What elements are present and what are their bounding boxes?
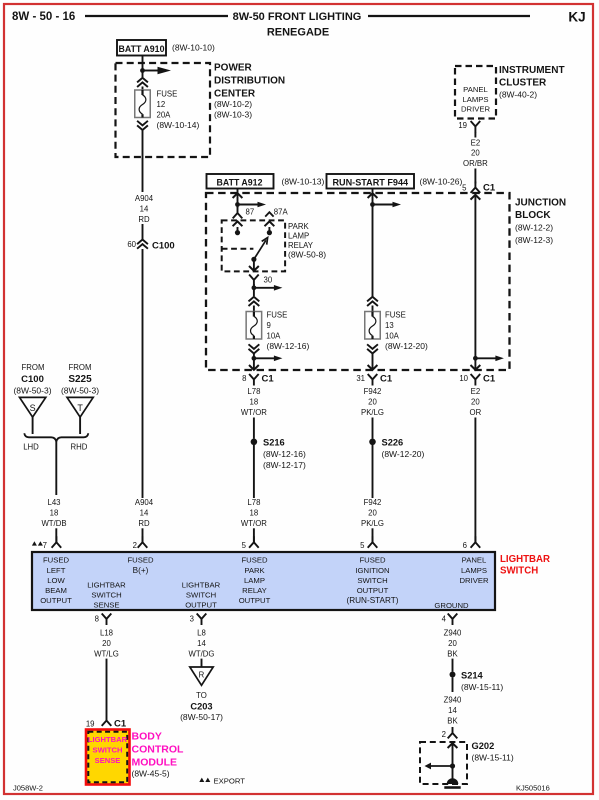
svg-text:FUSED: FUSED <box>359 556 386 565</box>
svg-text:CLUSTER: CLUSTER <box>499 77 547 88</box>
wire E2 through junction block <box>474 196 476 369</box>
header rule right <box>368 15 530 17</box>
svg-text:LAMPS: LAMPS <box>461 566 487 575</box>
label FUSED LEFT LOW BEAM OUTPUT <box>40 556 72 605</box>
wire label L18 20 WT/LG <box>94 629 119 659</box>
svg-text:E2: E2 <box>471 387 481 396</box>
svg-text:(8W-40-2): (8W-40-2) <box>499 90 537 100</box>
svg-text:2: 2 <box>442 730 446 739</box>
label LIGHTBAR SWITCH OUTPUT <box>182 581 221 610</box>
connector chevron below fuse 12 <box>137 121 148 130</box>
svg-text:20: 20 <box>471 149 480 158</box>
svg-text:L8: L8 <box>197 629 206 638</box>
relay pin 30 wire <box>253 259 255 271</box>
svg-text:DISTRIBUTION: DISTRIBUTION <box>214 76 285 87</box>
svg-text:(8W-50-3): (8W-50-3) <box>13 386 51 396</box>
svg-text:18: 18 <box>250 397 259 406</box>
svg-text:S225: S225 <box>68 374 92 385</box>
svg-text:PANEL: PANEL <box>463 85 488 94</box>
connector chevron above fuse 9 <box>249 297 260 306</box>
svg-text:10: 10 <box>459 374 468 383</box>
connector chevron below fuse 13 <box>367 344 378 353</box>
wire L18 to BCM <box>106 659 108 715</box>
Power Distribution Center dashed box <box>116 63 211 157</box>
node junction F944 feed <box>370 202 375 207</box>
label PANEL LAMPS DRIVER in switch <box>459 556 488 585</box>
svg-text:DRIVER: DRIVER <box>459 576 488 585</box>
node junction below fuse 9 <box>252 356 257 361</box>
svg-text:BK: BK <box>447 649 458 658</box>
svg-text:RELAY: RELAY <box>242 586 267 595</box>
svg-text:19: 19 <box>86 720 95 729</box>
svg-text:FUSE: FUSE <box>267 311 288 320</box>
svg-text:WT/OR: WT/OR <box>241 408 267 417</box>
svg-text:6: 6 <box>463 541 467 550</box>
node junction E2 <box>473 356 478 361</box>
wire to fuse 12 <box>142 87 144 91</box>
svg-text:87: 87 <box>246 208 255 217</box>
wire to fuse 9 <box>253 306 255 313</box>
entry arrow from BATT A912 <box>233 193 243 198</box>
wire S216 to pin 5 <box>253 445 255 498</box>
svg-text:FUSE: FUSE <box>385 311 406 320</box>
svg-text:L18: L18 <box>100 629 113 638</box>
wire E2 to pin 6 <box>474 418 476 543</box>
pin 5 lightbar switch ignition <box>360 536 377 550</box>
connector C1 pin 5 junction block <box>462 182 496 194</box>
entry arrow into G202 <box>448 743 458 748</box>
svg-text:L43: L43 <box>47 498 60 507</box>
svg-text:LEFT: LEFT <box>47 566 66 575</box>
connector C1 pin 10 <box>459 374 496 386</box>
power feed box BATT A912 <box>207 174 274 189</box>
wire label F942 20 PK/LG lower <box>361 498 384 528</box>
svg-text:FROM: FROM <box>69 363 92 372</box>
svg-text:(8W-10-13): (8W-10-13) <box>282 177 325 187</box>
ground feed arrow left <box>425 763 453 770</box>
svg-text:60: 60 <box>127 240 136 249</box>
svg-text:5: 5 <box>462 184 467 193</box>
svg-text:(8W-12-20): (8W-12-20) <box>382 449 425 459</box>
svg-text:MODULE: MODULE <box>132 757 178 769</box>
svg-text:RENEGADE: RENEGADE <box>267 26 329 38</box>
wire fuse 13 to pin 31 <box>372 354 374 370</box>
svg-text:KJ505016: KJ505016 <box>516 784 550 793</box>
pin arrow into junction block top <box>471 195 481 200</box>
svg-text:OUTPUT: OUTPUT <box>239 596 271 605</box>
svg-text:S: S <box>30 403 36 413</box>
svg-text:3: 3 <box>190 615 194 624</box>
pin 4 lightbar switch <box>442 614 458 626</box>
wire label F942 20 PK/LG upper <box>361 387 384 417</box>
svg-text:WT/DB: WT/DB <box>41 519 66 528</box>
wire label A904 14 RD upper <box>135 194 154 224</box>
label TO C203 (8W-50-17) <box>180 691 223 722</box>
wire to connector C1 pin 5 <box>474 169 476 184</box>
svg-text:12: 12 <box>157 100 166 109</box>
arrow run-start feed to other circuits <box>373 202 402 208</box>
wire C100 to lightbar switch pin 2 <box>142 249 144 498</box>
wire S214 to G202 <box>452 678 454 693</box>
wire pin 19 to E2 label <box>474 132 476 138</box>
wire into pin 7 <box>55 528 57 542</box>
connector C1 pin 19 <box>86 715 127 730</box>
pin 5 lightbar switch park lamp <box>242 536 259 550</box>
wire into pin 2 <box>142 528 144 542</box>
export marker pin 7 <box>32 541 43 545</box>
label FUSE 12 20A (8W-10-14) <box>157 90 200 131</box>
Body Control Module box <box>86 730 130 785</box>
label PARK LAMP RELAY (8W-50-8) <box>288 222 326 259</box>
svg-text:2: 2 <box>133 541 137 550</box>
svg-text:SWITCH: SWITCH <box>186 591 216 600</box>
svg-text:PARK: PARK <box>244 566 265 575</box>
svg-text:C1: C1 <box>380 374 393 385</box>
wire from S triangle <box>32 417 34 434</box>
svg-text:WT/OR: WT/OR <box>241 519 267 528</box>
svg-text:J058W-2: J058W-2 <box>13 784 43 793</box>
svg-text:L78: L78 <box>247 498 260 507</box>
svg-text:4: 4 <box>442 615 447 624</box>
svg-text:C203: C203 <box>190 702 212 712</box>
wire merged to pin 7 <box>55 442 57 495</box>
node junction pin 30 <box>252 284 257 296</box>
svg-text:8: 8 <box>242 374 246 383</box>
svg-text:20: 20 <box>448 639 457 648</box>
svg-text:LOW: LOW <box>47 576 65 585</box>
relay pin 87 entry <box>233 221 243 235</box>
Instrument Cluster dashed box <box>455 66 496 119</box>
svg-text:FUSED: FUSED <box>127 556 154 565</box>
wire label Z940 20 BK <box>444 629 462 659</box>
svg-text:30: 30 <box>264 276 273 285</box>
svg-text:20: 20 <box>368 508 377 517</box>
svg-text:(8W-15-11): (8W-15-11) <box>461 682 503 692</box>
LHD RHD merge bracket <box>24 433 88 442</box>
wire label E2 20 OR/BR <box>463 138 488 168</box>
svg-text:JUNCTION: JUNCTION <box>515 198 566 209</box>
wire label A904 14 RD lower <box>135 498 154 528</box>
svg-text:RHD: RHD <box>71 443 88 452</box>
svg-text:Z940: Z940 <box>444 696 462 705</box>
svg-text:S226: S226 <box>382 437 404 447</box>
fuse F13 10A <box>365 312 381 340</box>
svg-text:BEAM: BEAM <box>45 586 67 595</box>
svg-text:20: 20 <box>102 639 111 648</box>
triangle symbol S <box>20 397 46 417</box>
connector C1 pin 8 <box>242 374 274 386</box>
svg-text:(8W-12-16): (8W-12-16) <box>267 341 310 351</box>
svg-text:LHD: LHD <box>23 443 39 452</box>
svg-text:F942: F942 <box>364 387 382 396</box>
svg-text:SWITCH: SWITCH <box>91 591 121 600</box>
header rule left <box>85 15 228 17</box>
svg-text:(8W-10-10): (8W-10-10) <box>172 43 215 53</box>
svg-text:8W-50 FRONT LIGHTING: 8W-50 FRONT LIGHTING <box>233 11 362 23</box>
svg-text:(8W-10-2): (8W-10-2) <box>214 99 252 109</box>
chevron 87A above relay <box>265 212 273 216</box>
svg-text:CENTER: CENTER <box>214 89 256 100</box>
pin 6 lightbar switch <box>463 536 481 550</box>
svg-text:SWITCH: SWITCH <box>357 576 387 585</box>
svg-text:19: 19 <box>458 121 467 130</box>
exit arrow junction block pin 31 <box>368 365 378 370</box>
svg-text:14: 14 <box>448 706 457 715</box>
wire Z940 to splice S214 <box>452 659 454 672</box>
wire S226 to pin 5 <box>372 445 374 498</box>
svg-text:INSTRUMENT: INSTRUMENT <box>499 65 565 76</box>
arrow feed to other circuits <box>143 67 172 75</box>
relay pin 87A entry <box>265 221 275 235</box>
wire A912 into junction block <box>237 189 239 209</box>
wire F942 to splice S226 <box>372 418 374 439</box>
triangle symbol T <box>67 397 93 417</box>
connector chevron above fuse 12 <box>137 78 148 87</box>
connector C100 pin 60 <box>127 240 174 252</box>
svg-text:L78: L78 <box>247 387 260 396</box>
svg-text:9: 9 <box>267 321 271 330</box>
svg-text:OUTPUT: OUTPUT <box>185 600 217 609</box>
wire from T triangle <box>79 417 81 434</box>
fuse F9 10A <box>246 312 262 340</box>
svg-text:FROM: FROM <box>22 363 45 372</box>
pin 2 ground connector <box>442 727 458 739</box>
node junction on A910 feed <box>140 68 145 73</box>
wire F944 into junction block <box>372 189 374 297</box>
svg-text:RD: RD <box>138 215 150 224</box>
label G202 (8W-15-11) <box>472 741 514 763</box>
svg-text:C100: C100 <box>21 374 44 385</box>
svg-text:5: 5 <box>360 541 365 550</box>
svg-text:SENSE: SENSE <box>95 756 121 765</box>
pin 2 lightbar switch <box>133 536 148 550</box>
svg-text:(8W-12-3): (8W-12-3) <box>515 235 553 245</box>
svg-text:FUSED: FUSED <box>241 556 268 565</box>
svg-text:(RUN-START): (RUN-START) <box>347 596 399 605</box>
wire fuse 9 to pin 8 <box>253 354 255 370</box>
arrow panel lamps feed right <box>475 356 504 362</box>
svg-text:(8W-10-14): (8W-10-14) <box>157 120 200 130</box>
svg-text:POWER: POWER <box>214 63 253 74</box>
svg-text:SENSE: SENSE <box>93 600 119 609</box>
svg-text:13: 13 <box>385 321 394 330</box>
arrow park lamp feed to other circuits <box>254 285 283 291</box>
svg-text:BK: BK <box>447 716 458 725</box>
fuse F12 20A <box>135 90 151 118</box>
svg-text:14: 14 <box>140 508 149 517</box>
svg-text:(8W-10-26): (8W-10-26) <box>420 177 463 187</box>
svg-text:C1: C1 <box>262 374 275 385</box>
power feed box BATT A910 <box>117 40 166 56</box>
svg-text:(8W-50-17): (8W-50-17) <box>180 712 223 722</box>
svg-text:TO: TO <box>196 691 207 700</box>
node junction in G202 <box>450 763 455 768</box>
svg-text:20: 20 <box>471 397 480 406</box>
svg-text:SWITCH: SWITCH <box>93 745 123 754</box>
exit arrow junction block pin 8 <box>249 365 259 370</box>
wire to fuse 13 <box>372 306 374 313</box>
svg-text:DRIVER: DRIVER <box>461 105 490 114</box>
wire label L78 18 WT/OR upper <box>241 387 267 417</box>
svg-text:(8W-12-20): (8W-12-20) <box>385 341 428 351</box>
svg-text:LAMP: LAMP <box>288 231 309 240</box>
label LIGHTBAR SWITCH SENSE <box>87 581 126 610</box>
label PANEL LAMPS DRIVER <box>461 85 490 114</box>
wire label E2 20 OR <box>470 387 482 417</box>
label LIGHTBAR SWITCH SENSE magenta <box>88 735 128 765</box>
label INSTRUMENT CLUSTER (8W-40-2) <box>499 65 565 100</box>
label FUSED IGNITION SWITCH OUTPUT (RUN-START) <box>347 556 399 605</box>
wire into pin 5 right <box>372 528 374 542</box>
svg-text:PK/LG: PK/LG <box>361 408 384 417</box>
ground G202 dashed box <box>420 742 467 784</box>
svg-text:E2: E2 <box>471 138 481 147</box>
connector chevron above fuse 13 <box>367 297 378 306</box>
pin 7 lightbar switch <box>43 536 62 550</box>
exit arrow junction block pin 10 <box>471 365 481 370</box>
svg-text:(8W-12-17): (8W-12-17) <box>263 460 306 470</box>
label POWER DISTRIBUTION CENTER <box>214 63 285 120</box>
Junction Block dashed box <box>206 193 510 370</box>
wire label L78 18 WT/OR lower <box>241 498 267 528</box>
svg-text:RD: RD <box>138 519 150 528</box>
svg-text:OUTPUT: OUTPUT <box>40 596 72 605</box>
svg-text:20: 20 <box>368 397 377 406</box>
pin 87 terminal above relay <box>233 207 254 218</box>
park lamp relay dashed box <box>222 220 285 271</box>
svg-text:31: 31 <box>356 374 365 383</box>
label FUSE 9 10A (8W-12-16) <box>267 311 310 352</box>
svg-text:S216: S216 <box>263 437 285 447</box>
svg-text:LIGHTBAR: LIGHTBAR <box>182 581 221 590</box>
svg-text:OR: OR <box>470 408 482 417</box>
svg-text:87A: 87A <box>274 208 289 217</box>
svg-text:LIGHTBAR: LIGHTBAR <box>88 735 128 744</box>
wire above C100 <box>142 224 144 239</box>
node junction A912 feed <box>235 202 240 207</box>
svg-text:(8W-45-5): (8W-45-5) <box>132 769 170 779</box>
svg-text:10A: 10A <box>385 332 400 341</box>
svg-text:B(+): B(+) <box>133 566 149 575</box>
svg-text:(8W-12-2): (8W-12-2) <box>515 223 553 233</box>
svg-text:OR/BR: OR/BR <box>463 159 488 168</box>
arrow A912 feed to other circuits <box>238 202 267 208</box>
label BODY CONTROL MODULE <box>132 731 184 779</box>
svg-text:BATT A910: BATT A910 <box>119 44 165 54</box>
ground symbol <box>444 778 460 789</box>
off-page connector FROM C100 <box>13 363 51 396</box>
footer export legend <box>199 777 245 786</box>
header title 8W-50 FRONT LIGHTING / RENEGADE <box>233 11 362 38</box>
svg-text:LAMPS: LAMPS <box>462 95 488 104</box>
svg-text:PANEL: PANEL <box>462 556 487 565</box>
svg-text:LIGHTBAR: LIGHTBAR <box>500 554 550 565</box>
connector chevron below fuse 9 <box>249 344 260 353</box>
wire into pin 5 left <box>253 528 255 542</box>
label LIGHTBAR SWITCH red <box>500 554 550 577</box>
svg-text:PK/LG: PK/LG <box>361 519 384 528</box>
relay pin 30 exit arrow <box>249 266 259 271</box>
svg-text:PARK: PARK <box>288 222 309 231</box>
wire L8 to R triangle <box>201 659 203 667</box>
svg-text:IGNITION: IGNITION <box>355 566 389 575</box>
svg-text:WT/DG: WT/DG <box>189 649 215 658</box>
component box LIGHTBAR SWITCH <box>32 552 495 610</box>
svg-text:R: R <box>199 671 205 680</box>
label FUSE 13 10A (8W-12-20) <box>385 311 428 352</box>
svg-text:KJ: KJ <box>568 10 585 25</box>
svg-text:8W - 50 - 16: 8W - 50 - 16 <box>12 11 75 23</box>
svg-text:SWITCH: SWITCH <box>500 566 538 577</box>
svg-text:(8W-10-3): (8W-10-3) <box>214 110 252 120</box>
svg-text:(8W-15-11): (8W-15-11) <box>472 753 514 763</box>
splice S226 <box>369 437 424 459</box>
svg-text:20A: 20A <box>157 111 172 120</box>
svg-text:GROUND: GROUND <box>434 601 469 610</box>
connector C1 pin 31 <box>356 374 393 386</box>
svg-text:A904: A904 <box>135 194 154 203</box>
svg-text:LAMP: LAMP <box>244 576 265 585</box>
svg-text:FUSED: FUSED <box>43 556 70 565</box>
pin 30 terminal below relay <box>249 275 273 287</box>
pin 19 instrument cluster <box>458 121 480 133</box>
svg-text:C100: C100 <box>152 240 175 251</box>
svg-text:BATT A912: BATT A912 <box>217 177 263 187</box>
svg-text:S214: S214 <box>461 671 484 681</box>
svg-text:14: 14 <box>140 204 149 213</box>
power feed box RUN-START F944 <box>327 174 415 189</box>
off-page connector FROM S225 <box>61 363 99 396</box>
svg-text:F942: F942 <box>364 498 382 507</box>
svg-text:OUTPUT: OUTPUT <box>357 586 389 595</box>
wire label L43 18 WT/DB <box>41 498 66 528</box>
svg-text:18: 18 <box>250 508 259 517</box>
svg-text:WT/LG: WT/LG <box>94 649 119 658</box>
svg-text:BLOCK: BLOCK <box>515 210 551 221</box>
svg-text:10A: 10A <box>267 332 282 341</box>
svg-text:(8W-50-3): (8W-50-3) <box>61 386 99 396</box>
wire label L8 14 WT/DG <box>189 629 215 659</box>
svg-text:(8W-50-8): (8W-50-8) <box>288 249 326 259</box>
wire inside G202 <box>452 743 454 780</box>
svg-text:8: 8 <box>95 615 99 624</box>
svg-text:BODY: BODY <box>132 731 162 743</box>
svg-text:FUSE: FUSE <box>157 90 178 99</box>
wire L78 to splice S216 <box>253 418 255 439</box>
svg-text:CONTROL: CONTROL <box>132 744 184 756</box>
svg-text:7: 7 <box>43 541 47 550</box>
svg-text:RUN-START F944: RUN-START F944 <box>332 177 409 187</box>
svg-text:G202: G202 <box>472 741 495 751</box>
svg-text:18: 18 <box>50 508 59 517</box>
entry arrow from RUN-START F944 <box>368 193 378 198</box>
svg-text:5: 5 <box>242 541 247 550</box>
svg-text:C1: C1 <box>114 719 127 730</box>
label FUSED PARK LAMP RELAY OUTPUT <box>239 556 271 605</box>
label FUSED B(+) <box>127 556 154 575</box>
wire label Z940 14 BK <box>444 696 462 726</box>
arrow fused park lamp feed right <box>254 356 283 362</box>
svg-text:T: T <box>77 403 83 413</box>
relay switch blade <box>251 238 267 262</box>
label JUNCTION BLOCK (8W-12-2) (8W-12-3) <box>515 198 566 246</box>
svg-text:EXPORT: EXPORT <box>214 777 246 786</box>
pin 3 lightbar switch <box>190 614 207 626</box>
svg-text:C1: C1 <box>483 374 496 385</box>
svg-text:LIGHTBAR: LIGHTBAR <box>87 581 126 590</box>
wire fuse 12 to C100 <box>142 130 144 192</box>
splice S216 <box>251 437 306 470</box>
